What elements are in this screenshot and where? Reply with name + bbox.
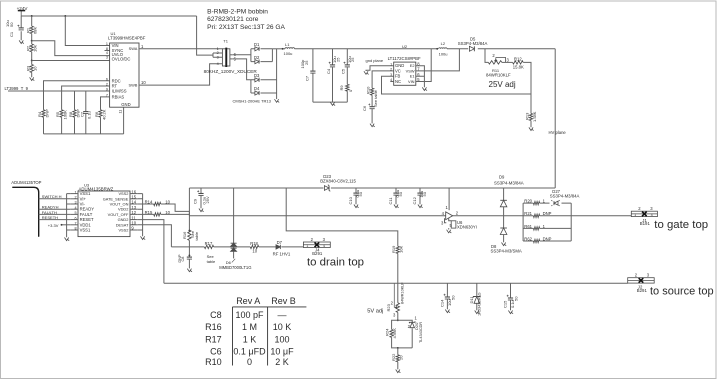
label U3 right pin name VSS2 [118,228,128,233]
label C11 refdes [388,197,393,205]
diode D5 [469,46,474,51]
wire R16 column upper [188,188,190,230]
ground below C6 [370,124,375,127]
wire U3 pin 10 stub [130,224,138,226]
resistor R23 [396,303,399,313]
wire RT to R5 column [62,86,110,110]
label C9 refdes [193,198,198,204]
label U2 pin number 6 [417,72,420,77]
svg-text:1: 1 [306,244,308,248]
svg-text:R17: R17 [205,241,213,246]
wire RBIAS to R6 column [101,97,110,134]
label R62 refdes [524,236,532,241]
svg-text:DNP: DNP [178,254,182,262]
svg-text:40.2K: 40.2K [101,109,106,120]
svg-text:25: 25 [304,60,309,65]
wire U3 pin 1 stub [70,193,78,195]
node junction D6 center [233,246,235,248]
label U3 right pin number 10 [131,221,136,226]
label U1 pin name VIN [112,43,119,48]
label U1 pin name SWB [129,82,138,87]
svg-text:VIN: VIN [408,79,415,84]
svg-text:C9: C9 [193,198,198,204]
resistor R19 [396,246,399,253]
label U3 right pin name GATE_SENSE [103,196,129,201]
label R21 value DNP [543,211,552,216]
svg-text:HV plane: HV plane [549,130,567,135]
net label SWITCH H [42,194,62,199]
wire U6 supply pin [448,188,450,210]
label U3 left pin name FAULT 5 [80,212,93,217]
label D4 [254,86,260,91]
wire R12 to R13 [523,62,531,113]
label J2 value B291 [637,288,648,293]
node junction R2-R3 [31,60,33,62]
trimmer R23 wiper [394,283,396,308]
capacitor C6 [368,104,374,109]
wire U2 VSW up [416,49,460,71]
label R4 refdes [37,111,42,117]
label U6 pin 5 [450,223,453,228]
label U3 left pin name READY 4 [80,207,95,212]
wire T1 pin5 to D3/D4 anodes [233,59,251,93]
label D7 refdes [277,240,283,245]
wire U3 secondary common bundle [138,194,143,237]
diode D7 [276,245,280,249]
label U3 right pin number 16 [131,189,136,194]
svg-text:SS3P4-M3/84A: SS3P4-M3/84A [494,181,524,186]
label C4 refdes [326,68,331,74]
svg-text:R1: R1 [25,27,30,33]
wire U3 pin 5 stub [70,213,78,215]
label R20 refdes [524,199,532,204]
ground stub below D8 [502,243,507,246]
svg-text:R4: R4 [37,111,42,117]
label D8 value SS3P4-M3/SMA [491,248,522,253]
wire R4 bottom lead [43,117,45,134]
wire signal SWITCH H [39,198,70,200]
label J2 pin 2 [635,273,638,278]
label U1 pin name ILIM/SS [112,89,127,94]
node +24V port [18,11,25,16]
wire +3.3V to VDD1 [62,224,71,226]
table row R17 name [205,334,222,344]
wire R2/R3 node to OVLO [32,60,110,62]
wire filter ground rail [313,101,347,103]
svg-text:SS3P4-M3/SMA: SS3P4-M3/SMA [491,248,522,253]
table row R17 rev A [243,334,257,344]
transistor U6 emitter box [451,221,456,228]
label U2 pin number 2 [390,68,392,72]
svg-text:5V adj: 5V adj [367,309,383,315]
wire R15 to gate line [161,211,190,215]
resistor R2 [30,44,33,52]
note bobbin line1 [207,9,268,16]
label U3 right pin name VOUT_ON [110,202,129,207]
label C2 value 0.1u [87,111,92,119]
table row C8 name [210,310,222,320]
svg-text:B291: B291 [312,251,323,256]
svg-text:to source top: to source top [650,285,714,297]
label C1 value 50 [9,22,14,27]
wire GND2 to return rail [138,220,164,284]
label J4 pin 1 [306,244,308,248]
table row R16 name [205,322,222,332]
svg-text:VC: VC [395,68,401,73]
net label READYH [42,205,59,210]
wire R14 jog to gate node [161,204,190,211]
wire U3 VSS1 ground bundle [67,194,71,238]
label U3 right pin number 15 [131,195,136,200]
svg-text:R8: R8 [68,111,73,117]
label J1 value B191 [640,221,651,226]
transformer T1 core bar [225,48,227,67]
svg-text:VSS1: VSS1 [80,228,91,233]
label C12 value [419,191,424,198]
note to drain top [307,257,364,269]
wire D1/D2 cathode rail [271,49,273,62]
op-amp U1 LT3999 body [110,43,139,107]
wire node to R24 [392,320,398,329]
svg-text:D11: D11 [469,296,474,304]
svg-text:R2: R2 [25,45,30,51]
wire rail to VIN pin [65,16,109,46]
svg-text:RESETH: RESETH [42,215,58,220]
label U3 right pin number 14 [131,200,136,205]
table row C6 name [210,346,222,356]
label R8 value DNP [75,109,80,118]
label C6 refdes [362,105,367,111]
label D20 pin 1 [415,315,418,320]
svg-text:0.1 μFD: 0.1 μFD [233,346,266,356]
net label LT3999_T_9 [5,86,29,91]
label R11 pin 2 [492,53,495,58]
label U3 right pin name VSS2 [118,191,128,196]
wire R10 to C6 [371,95,373,106]
wire rail to D9 [503,188,505,200]
wire R1/R2 node to UVLO [32,41,110,56]
wire D8 anode stub [503,235,505,243]
table header Rev A [236,296,260,306]
label U3 left pin name RESET 6 [80,217,94,222]
label U1 value LT3999HMSE4PBF [108,36,146,41]
svg-text:R17: R17 [205,334,222,344]
svg-text:C6: C6 [362,105,367,111]
svg-text:R14: R14 [145,199,153,204]
label J4 pin 2 [311,237,314,242]
ground filter rail [330,102,335,105]
svg-text:6278230121 core: 6278230121 core [207,16,259,23]
wire C14 leads [446,283,448,309]
label R62 value DNP [543,236,552,241]
wire R62 row [523,240,571,242]
wire D2 leads [251,61,273,63]
wire node to R22 [397,348,399,355]
diode D20 TL431 [409,321,416,327]
wire U3 pin 13 stub [130,208,138,210]
label L1 refdes [285,42,290,47]
wire U2 GND to ground [366,66,394,71]
wire C8 to ground [188,259,190,268]
wire gate network to J1 [571,215,631,217]
note 5V adj [367,309,383,315]
wire R21 row [523,215,571,217]
capacitor C14 [444,294,450,299]
label U1 pin number 1 SWA [141,44,144,49]
svg-text:100: 100 [274,334,289,344]
wire gate line to buffer [189,215,445,217]
svg-text:LT1172CS8#PBF: LT1172CS8#PBF [388,56,421,61]
svg-text:25V adj: 25V adj [489,80,516,89]
svg-text:4: 4 [217,62,219,66]
net label ADUM4135TOP [11,180,41,185]
svg-text:DNP: DNP [543,236,552,241]
label U1 pin number 10 SWB [141,80,146,85]
label D23 refdes [323,174,331,179]
label R6 refdes [94,111,99,117]
wire C2 column [85,91,87,134]
wire U3 pin 15 stub [130,198,138,200]
label C11 value [395,190,400,198]
svg-text:100u: 100u [284,51,293,56]
wire U3 pin 3 stub [70,203,78,205]
wire R24 to bottom [392,337,413,348]
label R20 value 1 [543,199,546,204]
label U2 pin name NC [395,79,401,84]
svg-text:R12: R12 [514,57,522,62]
svg-text:10 K: 10 K [273,322,292,332]
svg-text:C10: C10 [348,196,353,204]
label T1 pin 5 [234,57,237,62]
capacitor C15 [507,295,513,300]
wire HV mid rail right [331,187,555,189]
label U1 pin name RT [112,84,118,89]
svg-text:table: table [194,231,199,240]
ground U3 right VSS2 bundle [141,236,146,239]
label R24 refdes [385,328,390,336]
resistor R13 [529,113,532,120]
resistor R8 [73,110,76,117]
svg-text:—: — [278,310,287,320]
wire 25V rail segment C [478,48,555,50]
wire T1 pin6 to D1/D2 anodes [233,49,251,62]
label U1 pin name SWA [129,46,138,51]
note 25V adj [489,80,516,89]
label R15 value 10 [165,210,170,215]
node junction R1 top [31,15,33,17]
wire rectifier out to L1 [272,48,285,50]
capacitor C9 [197,190,203,195]
wire C1 leads [20,16,22,40]
capacitor C1 [17,25,23,30]
label U1 pin name GND [121,102,130,107]
wire C6 to ground [371,109,373,124]
wire U3 pin 12 stub [130,213,138,215]
label C5 refdes [341,68,346,74]
svg-text:R22: R22 [391,353,396,361]
svg-text:50: 50 [450,295,455,300]
label C10 voltage 50 [358,191,363,196]
svg-text:LT3999HMSE4PBF: LT3999HMSE4PBF [108,36,146,41]
svg-text:B291: B291 [637,288,648,293]
svg-text:R16: R16 [182,231,187,239]
diode D4 [255,91,259,95]
note to source top [650,285,714,297]
ground below C11 [394,205,399,208]
label U2 pin number 4 [390,78,392,82]
resistor R17 [204,245,213,248]
svg-text:R21: R21 [524,211,532,216]
label R16 refdes [182,231,187,239]
svg-text:R19: R19 [391,245,396,253]
bus ADUM4135TOP [13,187,39,236]
op-amp U6 buffer triangle [446,212,453,220]
label R18 value 10 [252,248,257,253]
label U3 left pin name VI- 3 [80,202,86,207]
svg-text:R18: R18 [250,241,258,246]
svg-text:R3: R3 [25,65,30,71]
label R11 value 84WR10KLF [486,73,511,78]
svg-text:R15: R15 [145,210,153,215]
label U1 pin number 6 [106,78,108,82]
svg-text:20: 20 [398,355,403,360]
label R1 value 68K [33,27,38,34]
label R1 refdes [25,27,30,33]
label U1 pin number 2 [106,83,108,87]
label U2 pin name E2 [410,63,415,68]
svg-text:C5: C5 [341,68,346,74]
label R14 refdes [145,199,153,204]
svg-text:gnd plane: gnd plane [366,58,384,63]
wire D9 to gate node [503,207,505,228]
table row C6 rev B [270,346,294,356]
label U1 pin name UVLO [112,52,124,57]
svg-text:to gate top: to gate top [654,219,708,231]
wire R16 to C8 [188,240,190,256]
svg-text:VSW: VSW [406,68,415,73]
svg-text:B191: B191 [640,221,651,226]
ground below D11 [475,311,480,314]
svg-text:100 pF: 100 pF [235,310,264,320]
label U1 pin number 1 [106,42,108,46]
svg-text:15.8K: 15.8K [513,64,524,69]
label T1 pin 3 [217,55,219,59]
svg-text:100K: 100K [63,110,68,120]
svg-text:CMSH1-200HE TR13: CMSH1-200HE TR13 [233,99,272,104]
svg-text:TL4343CDR: TL4343CDR [419,322,423,343]
wire U3 pin 2 stub [70,198,78,200]
label R5 value 100K [63,110,68,120]
svg-text:D7: D7 [277,240,283,245]
svg-text:R5: R5 [55,111,60,117]
svg-text:ILIM/SS: ILIM/SS [112,89,127,94]
wire R20 row [523,202,571,204]
node junction L1 left [282,48,284,50]
wire SWA to T1 pin1 [139,48,222,50]
wire D11 leads [476,283,478,310]
note bobbin line3 [207,24,285,31]
svg-text:R16: R16 [205,322,222,332]
capacitor C5 [344,62,350,67]
wire R22 to ground [397,362,399,370]
wire +24V rail [21,15,196,17]
svg-text:11: 11 [119,110,123,114]
wire R13 to ground [530,121,532,128]
label U3 right pin number 12 [131,210,136,215]
table row R16 rev A [242,322,257,332]
table row C6 rev A [233,346,266,356]
wire U1 GND pin lead [123,107,125,134]
connector J1 [631,211,657,216]
ground below R13 [529,127,534,130]
svg-text:C4: C4 [326,68,331,74]
note bobbin line2 [207,16,259,23]
label U3 left pin number 8 [75,227,77,231]
ground below C15 [508,311,513,314]
label U2 pin number 1 [390,62,392,66]
label U2 pin number 3 [390,73,392,77]
label C14 voltage 50 [450,295,455,300]
label J1 pin 2 [638,206,641,211]
label U3 value ADUM4135BRWZ [79,186,114,191]
resistor R22 [396,355,399,362]
svg-text:RBIAS: RBIAS [112,94,125,99]
label R19 refdes [391,245,396,253]
node junction VIN drop [64,15,66,17]
svg-text:BZX840-C8V2,115: BZX840-C8V2,115 [320,179,356,184]
label J4 refdes [315,248,320,253]
connector J4 [303,242,330,248]
label J4 pin 4 [323,244,325,248]
svg-text:C2: C2 [79,111,84,117]
wire T1 pin2/3 bracket [213,53,222,57]
wire T1 pin6 stub [230,54,233,56]
svg-text:4.99K: 4.99K [392,328,397,339]
label U1 pin name RDC [112,78,121,83]
wire rail to R23 [397,283,399,303]
ground below C14 [445,310,450,313]
capacitor C8 [187,257,192,259]
svg-text:C6: C6 [210,346,222,356]
wire DESAT drop [138,225,172,247]
resistor R4 [42,110,45,117]
svg-text:R9: R9 [339,85,344,91]
ground U2 gnd plane [364,71,369,74]
svg-text:10: 10 [141,80,146,85]
label R18 refdes [250,241,258,246]
diode D11 zener [473,296,481,304]
svg-text:1: 1 [634,213,636,217]
label R13 value 1.58K [532,111,537,122]
label U3 right pin name GND2 [118,217,129,222]
label R61 value 1 [543,224,546,229]
svg-text:VSS2: VSS2 [118,228,128,233]
svg-text:D9: D9 [499,174,505,179]
label D3 [254,73,260,78]
label R17 refdes [205,241,213,246]
svg-text:C12: C12 [412,196,417,204]
label D2 [254,55,260,60]
svg-text:50: 50 [9,22,14,27]
svg-text:80KHZ_1200V_XDUCER: 80KHZ_1200V_XDUCER [204,69,258,74]
table row R10 rev B [275,357,289,367]
wire R5 bottom lead [61,117,63,134]
svg-text:0.1u: 0.1u [87,111,92,119]
label C8 refdes [181,257,185,262]
label U1 pin number 4 [106,51,108,55]
label J1 pin 1 [634,213,636,217]
label L2 value 100u [439,51,448,56]
